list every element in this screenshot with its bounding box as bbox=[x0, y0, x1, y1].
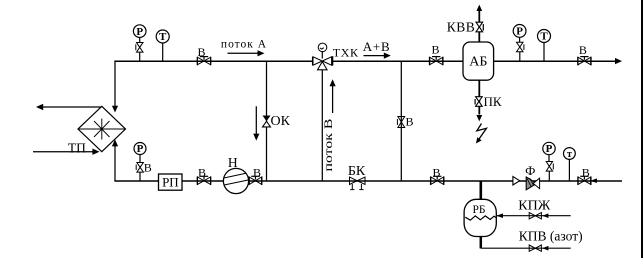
svg-text:В: В bbox=[582, 166, 590, 180]
svg-text:В: В bbox=[432, 43, 440, 57]
svg-text:А+В: А+В bbox=[363, 39, 391, 54]
svg-text:РП: РП bbox=[162, 174, 179, 189]
svg-text:БК: БК bbox=[348, 164, 366, 179]
svg-text:ТП: ТП bbox=[68, 140, 86, 155]
svg-text:В: В bbox=[253, 165, 261, 179]
svg-text:В: В bbox=[579, 43, 587, 57]
svg-text:т: т bbox=[567, 149, 572, 160]
svg-text:поток В: поток В bbox=[323, 118, 335, 171]
svg-text:В: В bbox=[198, 166, 206, 180]
svg-text:В: В bbox=[433, 165, 441, 179]
svg-text:В: В bbox=[406, 115, 414, 129]
svg-text:В: В bbox=[198, 45, 206, 59]
svg-text:АБ: АБ bbox=[469, 55, 487, 70]
svg-text:Р: Р bbox=[137, 143, 144, 155]
svg-text:КВВ: КВВ bbox=[447, 19, 476, 34]
svg-text:Н: Н bbox=[228, 155, 238, 170]
svg-text:Т: Т bbox=[540, 31, 548, 43]
svg-text:Р: Р bbox=[516, 26, 523, 38]
svg-text:Р: Р bbox=[136, 26, 143, 38]
svg-text:ОК: ОК bbox=[271, 114, 291, 129]
svg-text:КПЖ: КПЖ bbox=[518, 199, 550, 214]
svg-text:ПК: ПК bbox=[484, 94, 502, 109]
svg-text:РБ: РБ bbox=[473, 204, 486, 216]
svg-text:ТХК: ТХК bbox=[333, 46, 359, 60]
svg-text:В: В bbox=[144, 161, 152, 175]
svg-text:Т: Т bbox=[159, 31, 167, 43]
svg-text:Ф: Ф bbox=[525, 163, 535, 178]
svg-text:КПВ (азот): КПВ (азот) bbox=[519, 229, 583, 244]
svg-text:Р: Р bbox=[546, 143, 553, 155]
svg-text:поток А: поток А bbox=[221, 39, 267, 51]
